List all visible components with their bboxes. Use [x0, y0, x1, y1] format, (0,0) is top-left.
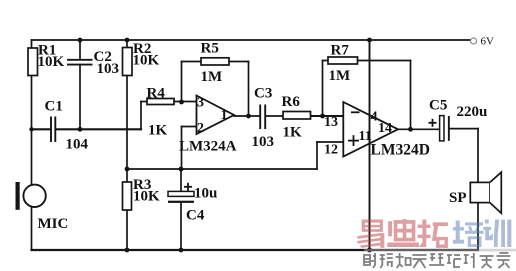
svg-text:1K: 1K — [148, 123, 168, 139]
svg-text:104: 104 — [66, 137, 89, 153]
svg-text:1M: 1M — [201, 69, 223, 85]
svg-text:103: 103 — [252, 134, 275, 150]
svg-text:11: 11 — [359, 129, 372, 144]
svg-text:SP: SP — [449, 190, 467, 206]
svg-text:C1: C1 — [45, 99, 63, 115]
svg-text:LM324D: LM324D — [371, 142, 430, 159]
svg-text:220u: 220u — [457, 104, 488, 120]
svg-text:1: 1 — [221, 108, 228, 123]
svg-text:R6: R6 — [282, 94, 301, 110]
svg-text:LM324A: LM324A — [179, 139, 237, 155]
svg-text:R5: R5 — [201, 41, 219, 57]
svg-text:2: 2 — [197, 121, 204, 136]
svg-text:3: 3 — [197, 96, 204, 111]
svg-text:103: 103 — [97, 61, 120, 77]
svg-text:MIC: MIC — [38, 216, 69, 232]
svg-text:C4: C4 — [186, 208, 205, 224]
svg-text:R4: R4 — [147, 86, 166, 102]
svg-text:4: 4 — [371, 110, 378, 125]
svg-text:C3: C3 — [254, 86, 272, 102]
svg-text:10K: 10K — [133, 53, 160, 69]
svg-text:R7: R7 — [331, 43, 350, 59]
svg-text:10K: 10K — [133, 189, 160, 205]
svg-text:1K: 1K — [283, 125, 303, 141]
svg-text:1M: 1M — [329, 68, 351, 84]
svg-text:6V: 6V — [481, 36, 495, 48]
svg-text:10K: 10K — [38, 54, 65, 70]
svg-text:10u: 10u — [194, 186, 217, 202]
svg-text:14: 14 — [378, 121, 392, 136]
svg-text:C5: C5 — [429, 98, 447, 114]
svg-text:13: 13 — [324, 115, 338, 130]
svg-text:12: 12 — [324, 143, 338, 158]
